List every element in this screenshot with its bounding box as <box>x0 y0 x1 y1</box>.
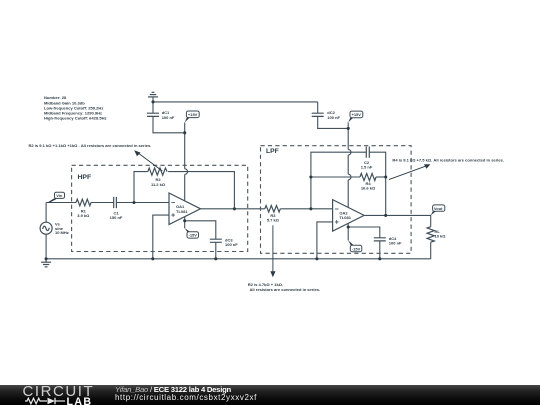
svg-text:High-frequency Cutoff: 6428.5H: High-frequency Cutoff: 6428.5Hz <box>44 116 107 121</box>
svg-text:R4 is 9.1 kΩ +7.5 kΩ. All resi: R4 is 9.1 kΩ +7.5 kΩ. All resistors are … <box>392 158 504 163</box>
svg-text:+15V: +15V <box>352 112 362 117</box>
svg-text:Vout: Vout <box>434 206 443 211</box>
svg-text:+15V: +15V <box>188 112 198 117</box>
svg-text:Vin: Vin <box>56 193 63 198</box>
svg-text:All resistors are connected in: All resistors are connected in series. <box>250 287 321 292</box>
svg-text:100 nF: 100 nF <box>225 242 238 247</box>
svg-text:-15V: -15V <box>189 233 198 238</box>
svg-text:-15V: -15V <box>352 246 361 251</box>
svg-text:10 kΩ: 10 kΩ <box>435 234 447 239</box>
svg-text:LPF: LPF <box>266 148 279 155</box>
svg-text:150 nF: 150 nF <box>110 215 123 220</box>
svg-text:TL081: TL081 <box>176 209 188 214</box>
svg-text:TL081: TL081 <box>339 215 351 220</box>
svg-text:16.6 kΩ: 16.6 kΩ <box>361 186 376 191</box>
svg-text:HPF: HPF <box>78 174 92 181</box>
svg-text:100 nF: 100 nF <box>327 115 340 120</box>
svg-text:R2 is 9.1 kΩ +1.1kΩ +1kΩ . All: R2 is 9.1 kΩ +1.1kΩ +1kΩ . All resistors… <box>29 143 152 148</box>
svg-text:100 nF: 100 nF <box>389 241 402 246</box>
svg-text:1.5 nF: 1.5 nF <box>361 165 373 170</box>
svg-text:10 MHz: 10 MHz <box>55 230 69 235</box>
svg-text:3.9 kΩ: 3.9 kΩ <box>77 213 90 218</box>
svg-text:11.2 kΩ: 11.2 kΩ <box>151 182 166 187</box>
svg-text:5.7 kΩ: 5.7 kΩ <box>267 217 280 222</box>
svg-text:100 nF: 100 nF <box>162 115 175 120</box>
